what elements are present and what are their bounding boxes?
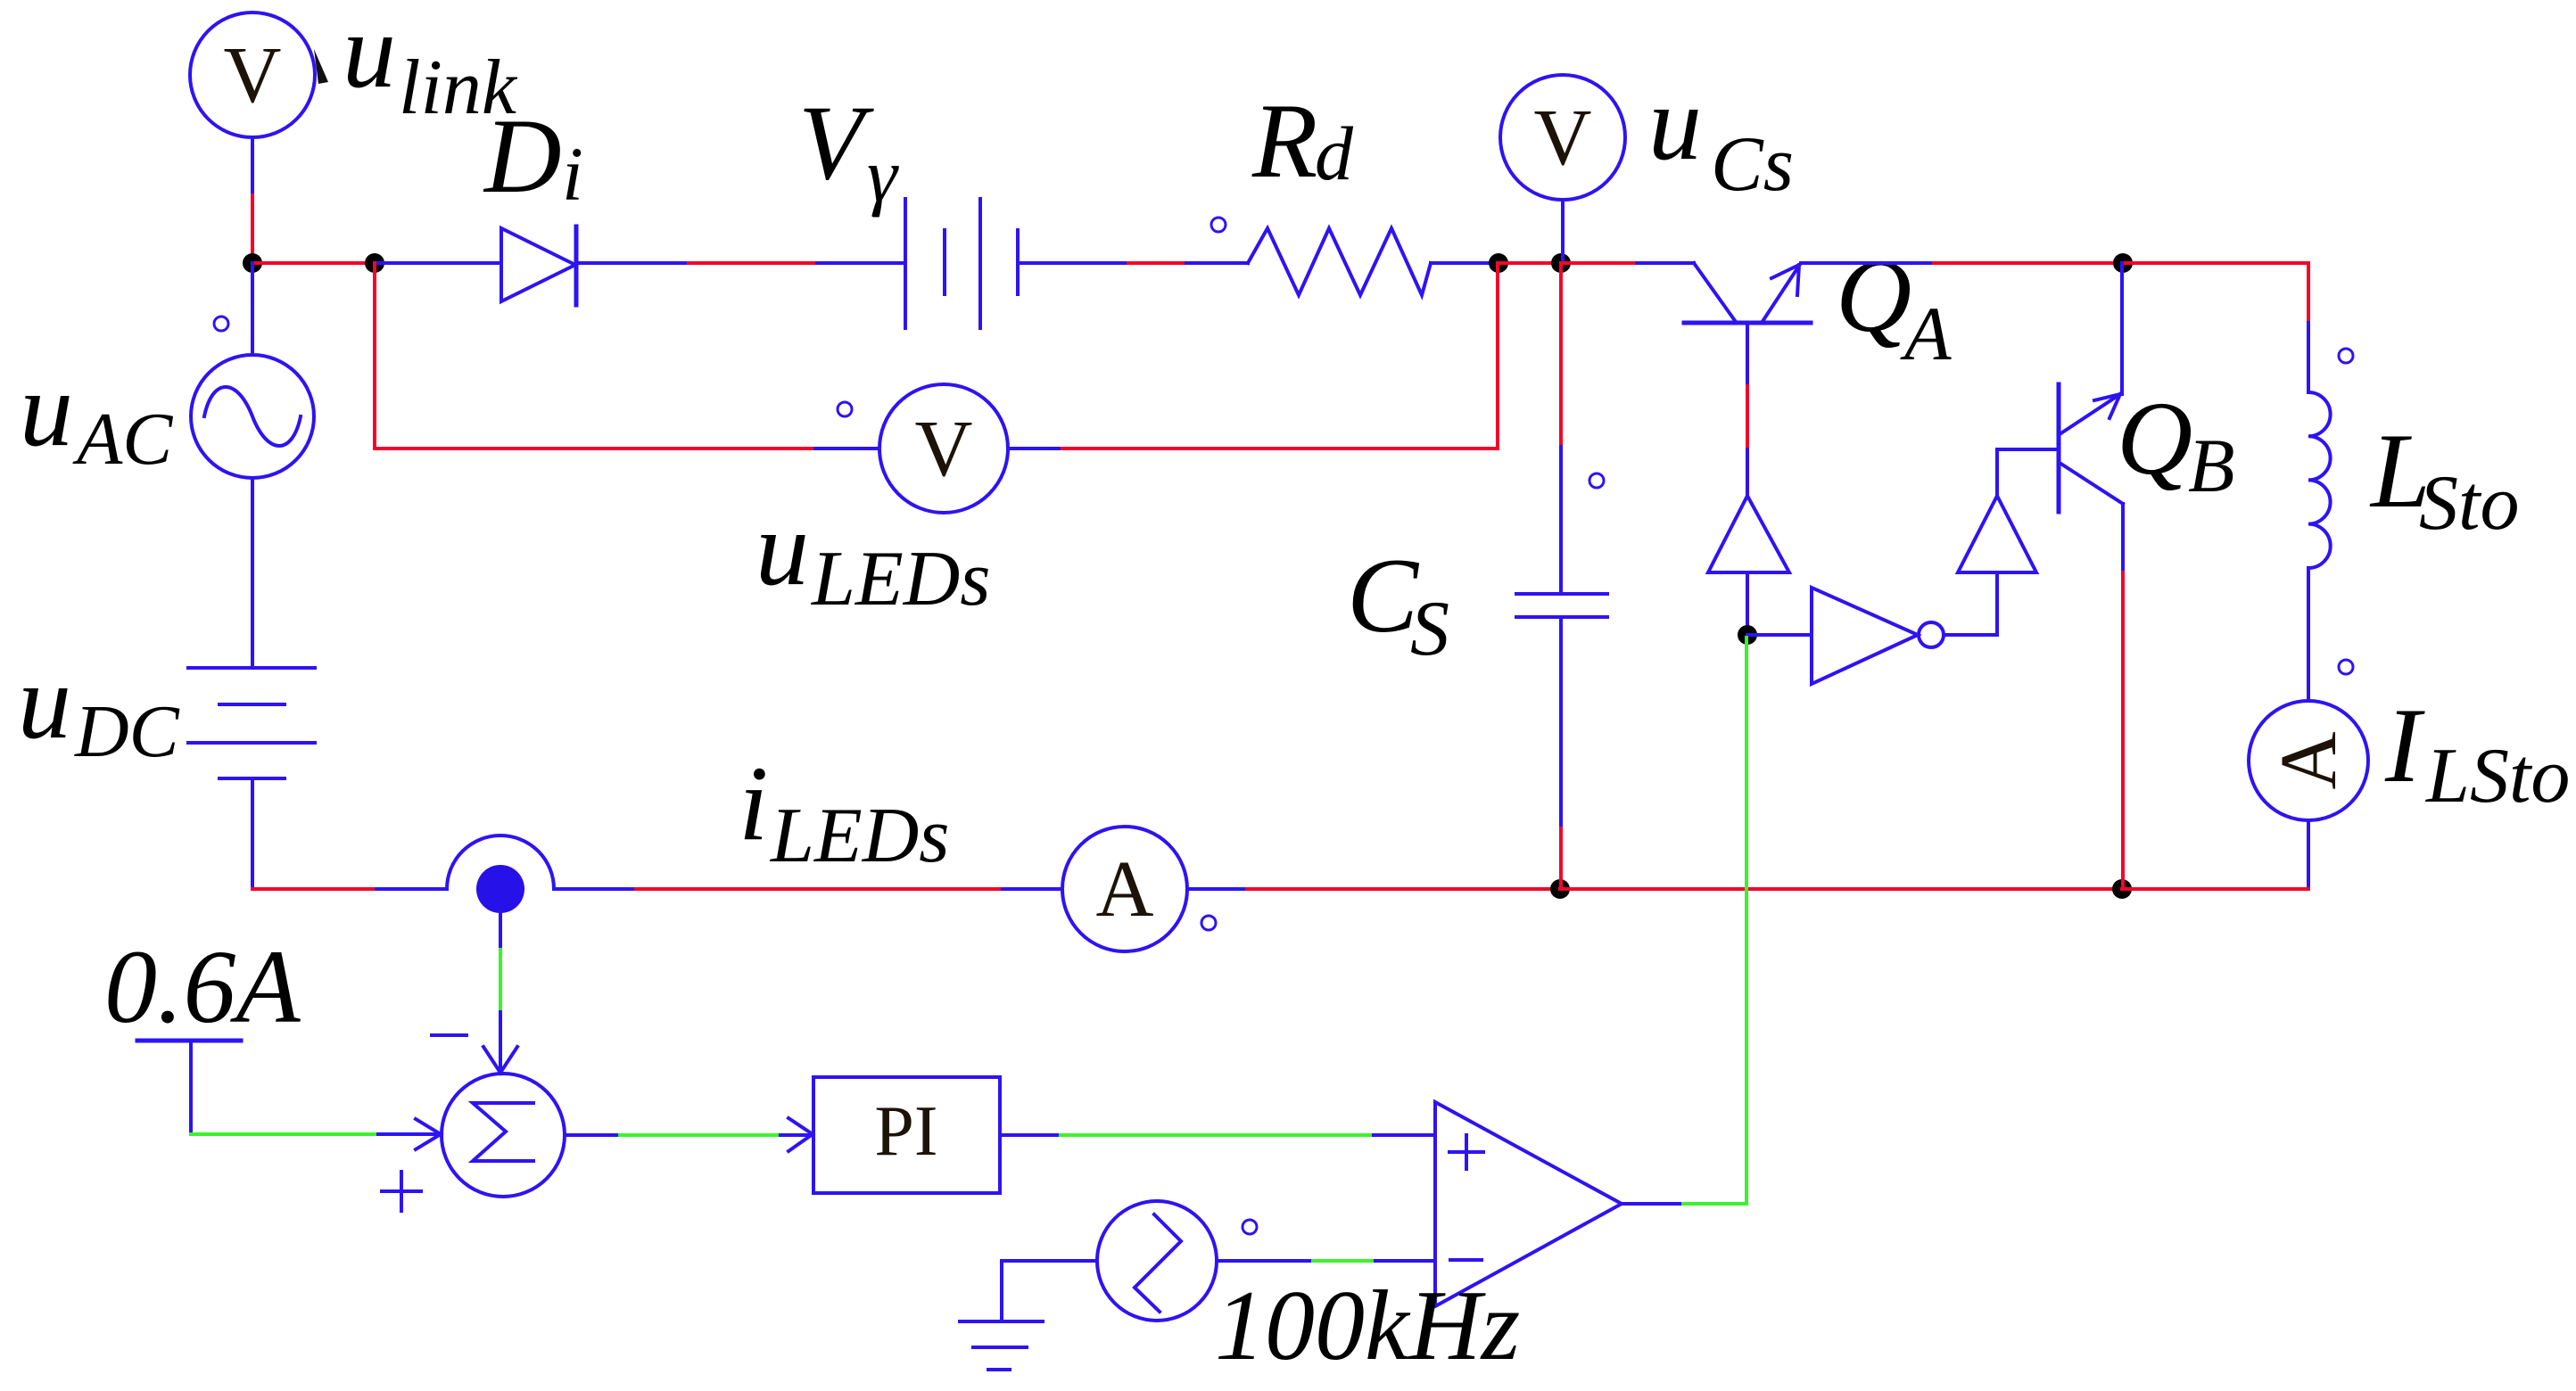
current probe hump: [447, 835, 554, 889]
sum block: [442, 1074, 565, 1197]
ground: [960, 1321, 1043, 1370]
wire capacitor to node F: [1559, 617, 1563, 828]
svg-text:D: D: [483, 96, 562, 215]
marker u_AC port: [214, 317, 228, 331]
label L_Sto: [2369, 411, 2519, 547]
svg-text:V: V: [798, 83, 874, 202]
wire AC source to u_DC battery: [251, 478, 254, 668]
wire ulink meter to node A: [251, 137, 254, 195]
label minus at sum: [432, 1033, 466, 1037]
svg-text:V: V: [915, 405, 973, 493]
wire comparator output to node H: [1622, 1202, 1683, 1206]
wire Q_A base lead: [1746, 323, 1749, 386]
wire resistor to node C: [1431, 261, 1499, 265]
svg-text:0.6A: 0.6A: [104, 928, 301, 1045]
svg-text:d: d: [1315, 111, 1354, 196]
wire sawtooth to comparator minus: [1218, 1259, 1313, 1263]
label C_S: [1347, 536, 1449, 672]
inverter U2: [1812, 588, 1944, 684]
marker I_LSto port: [2339, 660, 2353, 674]
arrowhead into PI: [788, 1118, 813, 1151]
wire PI to comparator: [1000, 1133, 1061, 1137]
wire V_gamma to resistor: [1018, 261, 1128, 265]
svg-text:V: V: [224, 31, 282, 119]
svg-text:DC: DC: [74, 690, 180, 773]
node C junction dot: [1489, 253, 1508, 273]
svg-text:LSto: LSto: [2424, 733, 2570, 819]
label u_AC: [20, 350, 173, 481]
label plus at sum: [382, 1172, 421, 1211]
label Q_B: [2117, 380, 2235, 508]
wire 0.6A to sum: [191, 1132, 378, 1136]
ammeter A i_LEDs: [1062, 827, 1187, 951]
wire node B down to u_LEDs row: [375, 263, 815, 449]
bottom rail left segment: [252, 887, 376, 891]
voltmeter V u_link: [190, 12, 328, 137]
resistor R_d: [1248, 228, 1431, 295]
inductor L_Sto: [2308, 392, 2331, 568]
node D junction dot: [1551, 253, 1571, 273]
wire node E to top-right corner: [2123, 263, 2308, 323]
wire node F to node G: [1560, 887, 2122, 891]
wire Q_B emitter to node E: [2120, 263, 2124, 394]
label Q_A: [1836, 237, 1952, 376]
PI block: [813, 1077, 1000, 1193]
svg-text:γ: γ: [867, 132, 899, 218]
node E junction dot: [2113, 253, 2133, 273]
arrowhead into sum left: [416, 1119, 441, 1149]
label V_gamma: [798, 83, 899, 218]
label u_link: [343, 0, 518, 131]
wire u_DC to bottom rail: [251, 778, 254, 889]
wire ammeter to node F: [1187, 887, 1247, 891]
svg-text:u: u: [343, 0, 396, 110]
label R_d: [1251, 81, 1354, 200]
wire node G to rail end: [2122, 887, 2308, 891]
node B junction dot: [365, 253, 384, 273]
wire Q_B collector to node G: [2121, 504, 2125, 572]
wire ammeter to bottom rail: [2307, 820, 2310, 889]
svg-text:R: R: [1251, 81, 1317, 200]
svg-text:PI: PI: [874, 1092, 937, 1171]
buffer U1 (driver for Q_A): [1708, 496, 1789, 572]
capacitor C_S: [1516, 594, 1607, 617]
svg-text:LEDs: LEDs: [769, 793, 950, 879]
svg-text:u: u: [20, 350, 73, 468]
current probe node dot: [476, 865, 524, 913]
constant 0.6A source: [137, 1041, 241, 1134]
label u_DC: [18, 642, 180, 773]
wire inductor to ammeter: [2307, 568, 2310, 701]
wire node H to inverter: [1747, 633, 1812, 637]
transistor Q_B: [2059, 384, 2123, 512]
node G junction dot: [2112, 879, 2132, 899]
wire node D to Q_A: [1561, 261, 1637, 265]
wire sawtooth to ground: [1002, 1261, 1097, 1321]
diode D_i: [501, 226, 576, 305]
marker u_LEDs port: [838, 402, 852, 416]
wire probe to sum junction: [499, 912, 502, 950]
node A junction dot: [243, 253, 262, 273]
AC source u_AC: [191, 355, 314, 478]
svg-text:Sto: Sto: [2419, 460, 2519, 547]
svg-text:C: C: [1347, 536, 1420, 654]
wire Q_A to node E: [1801, 261, 1934, 265]
voltmeter V u_Cs: [1500, 75, 1625, 200]
svg-text:I: I: [2384, 686, 2425, 804]
svg-text:Cs: Cs: [1711, 121, 1794, 208]
wire sum to PI: [565, 1133, 620, 1137]
marker i_LEDs port: [1201, 916, 1216, 930]
wire node A to AC source: [251, 263, 254, 355]
svg-text:LEDs: LEDs: [810, 536, 991, 622]
node H junction dot: [1738, 625, 1757, 645]
label u_Cs: [1648, 63, 1794, 208]
svg-text:u: u: [755, 489, 809, 607]
comparator U4: [1435, 1102, 1622, 1306]
marker sawtooth port: [1243, 1220, 1257, 1234]
svg-text:V: V: [1534, 94, 1592, 182]
wire buffer U1 to node H: [1746, 572, 1749, 635]
transistor Q_A: [1684, 263, 1811, 323]
wire node A to node B: [252, 261, 375, 265]
DC source V_gamma: [905, 199, 1018, 328]
svg-text:B: B: [2188, 423, 2235, 508]
svg-text:i: i: [562, 131, 583, 217]
wire node B to diode: [375, 261, 501, 265]
label I_LSto: [2384, 686, 2570, 819]
buffer U3 (driver for Q_B): [1958, 496, 2036, 572]
voltmeter V u_LEDs: [879, 384, 1008, 513]
marker C_S port: [1589, 473, 1604, 488]
wire buffer U3 to Q_B base: [1997, 449, 2059, 496]
wire probe to ammeter: [554, 887, 636, 891]
svg-text:100kHz: 100kHz: [1215, 1271, 1520, 1381]
svg-text:Q: Q: [2117, 380, 2192, 497]
label u_LEDs: [755, 489, 991, 622]
wire node D down to capacitor: [1559, 263, 1563, 447]
marker resistor port: [1211, 218, 1226, 232]
wire u_LEDs meter to node C: [1009, 447, 1062, 450]
wire inverter to buffer U3: [1944, 572, 1997, 635]
svg-text:A: A: [2265, 732, 2353, 790]
label i_LEDs: [739, 744, 950, 879]
svg-text:Q: Q: [1836, 237, 1911, 354]
svg-text:i: i: [739, 744, 768, 862]
arrowhead into sum top: [483, 1047, 517, 1073]
svg-text:S: S: [1410, 586, 1449, 672]
svg-text:u: u: [1648, 63, 1702, 182]
marker L_Sto port: [2339, 349, 2353, 363]
node F junction dot: [1550, 879, 1570, 899]
wire diode to V_gamma: [576, 261, 689, 265]
ammeter A I_LSto: [2249, 701, 2368, 820]
DC source u_DC: [188, 668, 315, 778]
label D_i: [483, 96, 583, 217]
wire node C to node D: [1499, 261, 1561, 265]
wire u_Cs meter stem: [1561, 200, 1565, 263]
svg-text:A: A: [1096, 845, 1154, 934]
sawtooth source 100kHz: [1097, 1201, 1217, 1321]
svg-text:u: u: [18, 642, 71, 761]
svg-text:AC: AC: [72, 398, 173, 481]
svg-text:A: A: [1900, 291, 1952, 376]
